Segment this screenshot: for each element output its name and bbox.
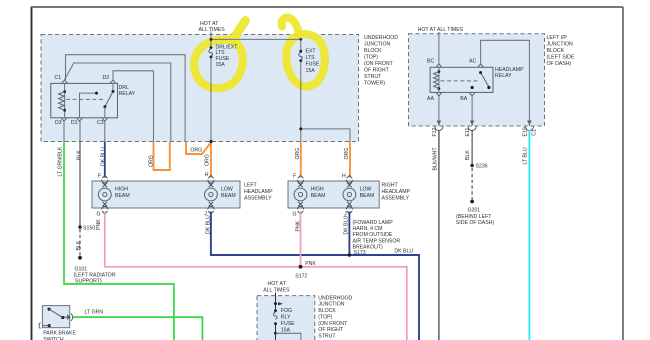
svg-text:HOT AT ALL TIMES: HOT AT ALL TIMES — [418, 27, 464, 33]
svg-text:FROM OUTSIDE: FROM OUTSIDE — [353, 232, 393, 238]
svg-text:OF RIGHT: OF RIGHT — [318, 327, 344, 333]
svg-text:E19: E19 — [523, 127, 529, 136]
svg-text:BA: BA — [460, 96, 467, 102]
svg-text:FOG: FOG — [281, 308, 292, 314]
svg-text:BLOCK: BLOCK — [364, 48, 382, 54]
svg-text:D1: D1 — [71, 120, 78, 126]
svg-text:ORG: ORG — [295, 148, 301, 160]
svg-text:STRUT: STRUT — [318, 334, 336, 340]
svg-text:BLK: BLK — [77, 150, 83, 160]
svg-text:PARK BRAKE: PARK BRAKE — [43, 331, 76, 337]
svg-text:LEFT: LEFT — [244, 183, 258, 189]
svg-text:JUNCTION: JUNCTION — [318, 302, 344, 308]
svg-text:F: F — [98, 174, 101, 180]
svg-text:JUNCTION: JUNCTION — [364, 41, 390, 47]
svg-text:F12: F12 — [432, 127, 438, 136]
svg-text:15A: 15A — [216, 62, 226, 68]
svg-text:G: G — [97, 212, 101, 218]
svg-text:ALL TIMES: ALL TIMES — [199, 27, 226, 33]
svg-text:HOT AT: HOT AT — [268, 281, 287, 287]
svg-text:BLK: BLK — [76, 240, 82, 250]
svg-text:S173: S173 — [354, 250, 366, 256]
svg-text:BEAM: BEAM — [360, 193, 375, 199]
svg-text:AIR TEMP SENSOR: AIR TEMP SENSOR — [353, 238, 401, 244]
svg-text:C3: C3 — [97, 120, 104, 126]
svg-text:LT BLU: LT BLU — [523, 147, 529, 164]
svg-text:DK BLU: DK BLU — [394, 249, 413, 255]
svg-text:G: G — [293, 212, 297, 218]
svg-text:STRUT: STRUT — [364, 74, 382, 80]
svg-text:C1: C1 — [55, 75, 62, 81]
svg-text:PNK: PNK — [96, 219, 102, 230]
svg-text:ASSEMBLY: ASSEMBLY — [244, 195, 272, 201]
svg-text:DRL: DRL — [119, 85, 129, 91]
svg-text:OF RIGHT: OF RIGHT — [364, 67, 390, 73]
svg-text:BC: BC — [427, 59, 434, 65]
svg-text:BEAM: BEAM — [115, 193, 130, 199]
svg-text:(BEHIND LEFT: (BEHIND LEFT — [456, 214, 492, 220]
svg-text:(ON FRONT: (ON FRONT — [318, 321, 348, 327]
svg-text:ORG: ORG — [205, 154, 211, 166]
svg-text:HEADLAMP: HEADLAMP — [244, 189, 273, 195]
svg-text:(ON FRONT: (ON FRONT — [364, 61, 394, 67]
svg-text:F: F — [293, 174, 296, 180]
svg-text:D3: D3 — [55, 120, 62, 126]
svg-text:EXT: EXT — [306, 49, 317, 55]
svg-text:UNDERHOOD: UNDERHOOD — [318, 295, 352, 301]
svg-text:JUNCTION: JUNCTION — [547, 41, 573, 47]
svg-text:HEADLAMP: HEADLAMP — [382, 189, 411, 195]
svg-text:BLOCK: BLOCK — [547, 48, 565, 54]
svg-text:RLY: RLY — [281, 315, 291, 321]
svg-text:DK BLU: DK BLU — [206, 215, 212, 234]
svg-text:RELAY: RELAY — [495, 73, 512, 79]
svg-text:SIDE OF DASH): SIDE OF DASH) — [456, 220, 495, 226]
svg-text:(LEFT SIDE: (LEFT SIDE — [547, 54, 575, 60]
svg-text:S236: S236 — [476, 163, 488, 169]
svg-text:ORG: ORG — [344, 148, 350, 160]
svg-text:LTS: LTS — [306, 55, 316, 61]
svg-text:(FOWARD LAMP: (FOWARD LAMP — [353, 220, 394, 226]
svg-text:PNK: PNK — [296, 220, 302, 231]
svg-text:(TOP): (TOP) — [318, 314, 332, 320]
svg-text:D2: D2 — [103, 75, 110, 81]
svg-text:FUSE: FUSE — [306, 61, 320, 67]
svg-text:BLK/WHT: BLK/WHT — [433, 147, 439, 171]
svg-text:AA: AA — [427, 96, 434, 102]
svg-text:UNDERHOOD: UNDERHOOD — [364, 35, 398, 41]
svg-text:15A: 15A — [306, 68, 316, 74]
svg-text:BLK: BLK — [465, 150, 471, 160]
svg-text:OF DASH): OF DASH) — [547, 61, 572, 67]
svg-text:BEAM: BEAM — [221, 193, 236, 199]
svg-text:H: H — [342, 174, 346, 180]
svg-text:LOW: LOW — [360, 187, 372, 193]
svg-text:LOW: LOW — [221, 187, 233, 193]
svg-text:LEFT I/P: LEFT I/P — [547, 35, 568, 41]
svg-text:ORG: ORG — [149, 155, 155, 167]
svg-text:(TOP): (TOP) — [364, 54, 378, 60]
svg-text:HEADLAMP: HEADLAMP — [495, 67, 524, 73]
svg-text:LT GRN: LT GRN — [85, 310, 104, 316]
svg-text:H: H — [205, 172, 209, 178]
svg-text:SUPPORT): SUPPORT) — [75, 278, 102, 284]
svg-text:C1: C1 — [532, 129, 538, 136]
svg-text:HARN, 4 CM: HARN, 4 CM — [353, 226, 383, 232]
svg-text:RIGHT: RIGHT — [382, 183, 399, 189]
svg-text:10A: 10A — [281, 327, 291, 333]
svg-text:HIGH: HIGH — [115, 187, 128, 193]
svg-text:BEAM: BEAM — [311, 193, 326, 199]
svg-text:DK BLU: DK BLU — [101, 147, 107, 166]
svg-text:DK BLU: DK BLU — [344, 216, 350, 235]
svg-text:BLOCK: BLOCK — [318, 308, 336, 314]
svg-text:TOWER): TOWER) — [364, 80, 385, 86]
svg-text:AC: AC — [469, 59, 476, 65]
svg-text:G201: G201 — [468, 208, 481, 214]
svg-text:ALL TIMES: ALL TIMES — [263, 288, 290, 294]
svg-text:E11: E11 — [465, 128, 471, 137]
svg-text:PNK: PNK — [305, 261, 316, 267]
svg-text:LT GRN/BLK: LT GRN/BLK — [58, 146, 64, 176]
svg-text:FUSE: FUSE — [281, 321, 295, 327]
svg-text:RELAY: RELAY — [119, 91, 136, 97]
svg-text:ASSEMBLY: ASSEMBLY — [382, 195, 410, 201]
svg-text:HIGH: HIGH — [311, 187, 324, 193]
svg-text:S150: S150 — [83, 226, 95, 232]
svg-text:S172: S172 — [295, 273, 307, 279]
svg-text:ORG: ORG — [190, 147, 202, 153]
